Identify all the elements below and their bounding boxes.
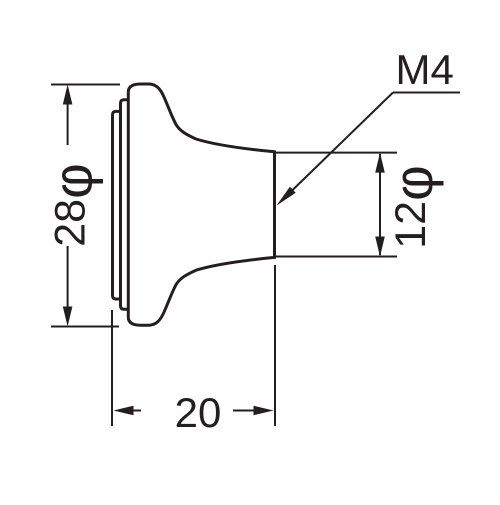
20 left dimension segment xyxy=(130,410,141,412)
20 right dimension segment xyxy=(233,410,257,412)
M4 leader arrowhead xyxy=(276,187,295,206)
svg-text:20: 20 xyxy=(175,389,222,436)
20 right arrowhead xyxy=(254,406,274,416)
20 left arrowhead xyxy=(114,406,134,416)
28phi bottom extension line xyxy=(51,326,119,328)
28phi lower arrowhead xyxy=(63,307,73,327)
M4 leader horizontal line xyxy=(393,92,460,94)
28phi dimension line upper segment xyxy=(67,100,69,145)
12phi dimension line xyxy=(379,154,381,255)
knob flange step 1 (outermost) xyxy=(113,111,121,299)
20 left extension line xyxy=(111,310,113,426)
12phi lower arrowhead xyxy=(375,237,385,257)
12phi top extension line xyxy=(276,152,397,154)
28phi upper arrowhead xyxy=(63,85,73,105)
svg-text:28φ: 28φ xyxy=(42,163,104,247)
svg-text:M4: M4 xyxy=(396,46,454,93)
knob flange step 2 xyxy=(121,100,129,309)
knob body outline xyxy=(128,84,274,325)
12phi bottom extension line xyxy=(276,256,397,258)
svg-text:12φ: 12φ xyxy=(382,165,444,249)
20 right extension line xyxy=(274,265,276,426)
28phi top extension line xyxy=(51,84,120,86)
12phi upper arrowhead xyxy=(375,153,385,173)
M4 leader diagonal line xyxy=(291,93,393,192)
28phi dimension line lower segment xyxy=(67,246,69,312)
